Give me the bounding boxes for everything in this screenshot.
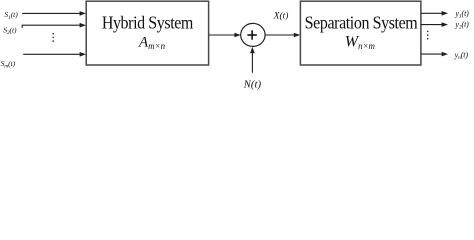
arrowhead y2 xyxy=(442,22,448,27)
plus sign xyxy=(247,34,256,36)
wire S2 start tick xyxy=(21,25,23,28)
wire y1 xyxy=(421,12,442,14)
svg-text:Sm(t): Sm(t) xyxy=(1,59,16,70)
wire y2 xyxy=(421,24,442,26)
arrowhead Sm into Hybrid System xyxy=(80,52,86,57)
wire S1 xyxy=(22,12,80,14)
arrowhead N(t) into summer xyxy=(250,47,255,53)
wire S2 xyxy=(22,24,80,26)
svg-text:N(t): N(t) xyxy=(243,79,262,91)
arrowhead into Separation System xyxy=(294,33,300,38)
wire summer to Separation System xyxy=(265,34,294,36)
wire Sm xyxy=(23,53,80,55)
summer circle U1 xyxy=(241,23,265,46)
svg-text:Separation System: Separation System xyxy=(305,13,418,33)
arrowhead into summer xyxy=(234,33,240,38)
arrowhead yn xyxy=(442,52,448,57)
block Hybrid System box xyxy=(86,1,208,65)
svg-text:X(t): X(t) xyxy=(273,10,289,21)
arrowhead S2 into Hybrid System xyxy=(80,23,86,28)
wire yn xyxy=(421,53,442,55)
svg-text:Hybrid System: Hybrid System xyxy=(102,13,193,33)
arrowhead y1 xyxy=(442,11,448,16)
arrowhead S1 into Hybrid System xyxy=(80,11,86,16)
wire Hybrid System to summer xyxy=(209,34,235,36)
ellipsis dots between S2 and Sm xyxy=(52,33,54,35)
wire N(t) vertical xyxy=(251,53,253,73)
ellipsis dots between y2 and yn xyxy=(427,31,429,33)
block Separation System box xyxy=(300,1,421,65)
